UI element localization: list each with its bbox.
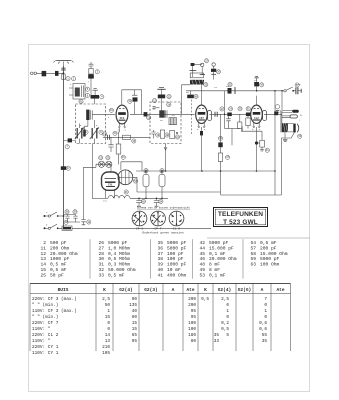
svg-text:2,5: 2,5 [102,297,110,302]
capacitor C38 [73,215,77,223]
svg-text:15: 15 [105,315,111,320]
capacitor C-padder [187,91,194,98]
svg-text:500 pF: 500 pF [50,240,67,246]
capacitor C2 chain [89,62,94,69]
wire detector out line [264,113,282,115]
ref 18 [167,103,171,107]
svg-text:0,6: 0,6 [259,327,267,332]
svg-text:50 pF: 50 pF [50,272,64,278]
svg-text:T 523 GWL: T 523 GWL [223,219,258,226]
svg-text:210: 210 [102,345,110,350]
ref 14 [113,131,117,135]
svg-text:40: 40 [132,309,138,314]
svg-text:" " (min.): " " (min.) [32,315,58,320]
tube V5 top view [118,170,137,192]
coil L3 core [159,110,167,117]
svg-text:105: 105 [102,351,110,356]
svg-text:80: 80 [191,339,197,344]
ref 48 [106,156,110,160]
svg-text:37: 37 [157,251,163,257]
resistor R31 [225,114,242,145]
svg-text:8 mF: 8 mF [209,262,220,268]
svg-text:42: 42 [199,240,205,246]
svg-text:2: 2 [43,240,46,246]
wire drop x224.5 [224,91,226,129]
wire right drop [141,90,143,115]
svg-text:15: 15 [132,327,138,332]
ref 51 [298,134,302,138]
tube V4 CY1 [102,172,120,198]
oscillator coil assembly [190,63,206,78]
svg-text:54: 54 [250,240,256,246]
node k3 [255,141,258,144]
tube labels [108,117,259,186]
resistor R-if-b [160,130,164,138]
svg-text:1000 pF: 1000 pF [167,262,187,268]
variable capacitor CV2 [90,120,99,144]
fuse F1 [62,226,72,230]
svg-text:CY1: CY1 [103,200,108,203]
wire B+ to output [281,90,283,110]
svg-text:46: 46 [199,256,205,262]
svg-text:G2(4): G2(4) [218,287,232,293]
svg-text:15: 15 [40,267,46,273]
wire speaker return [281,132,294,195]
svg-text:CY1: CY1 [108,183,113,186]
tiny pin numbers and stray marks [46,79,303,227]
switch S1b mains [44,224,59,229]
svg-text:30: 30 [98,256,104,262]
svg-text:20.000 Ohm: 20.000 Ohm [209,256,237,262]
ref 16 [121,155,125,159]
ref 6 [85,93,89,97]
svg-text:38: 38 [157,256,163,262]
svg-text:200: 200 [188,297,196,302]
wire plate top [122,89,142,91]
capacitor C37 [226,113,232,129]
node e1 [145,170,147,172]
socket labels [136,227,184,234]
tube V1 CF3 [116,105,128,128]
coil L2 core [84,110,92,130]
svg-text:1,0 MOhm: 1,0 MOhm [108,245,130,251]
capacitor C-osc3 chain [211,63,216,80]
capacitor C14 [108,137,113,152]
svg-text:CF7: CF7 [199,117,204,120]
svg-text:1000 pF: 1000 pF [50,256,70,262]
ref 31 [260,83,264,87]
ref 5 [85,87,89,91]
svg-text:14: 14 [105,333,111,338]
wire return loop bottom [221,171,282,195]
capacitor C37b [65,215,69,223]
svg-text:15.000 Ohm: 15.000 Ohm [260,251,288,257]
svg-text:BUIS: BUIS [58,287,69,293]
page frame [29,45,310,392]
svg-text:0: 0 [226,315,229,320]
svg-text:41: 41 [157,272,163,278]
svg-text:33: 33 [214,339,220,344]
wire right drop [274,91,276,171]
ref 27 [229,107,233,111]
capacitor C42 to ground [254,76,259,90]
IF transformer dashed box [150,102,181,144]
svg-text:5000 pF: 5000 pF [167,240,187,246]
capacitor C26 [158,89,165,114]
svg-text:13: 13 [105,339,111,344]
coil L4 core [169,118,177,125]
ref 46 [66,166,70,170]
svg-text:0,5 mF: 0,5 mF [50,262,67,268]
wire bottom right rule [207,237,310,239]
ref 19 [156,133,160,137]
capacitor C59 [293,87,301,94]
wire if down arrow [164,144,167,172]
tube V2 plate wire [201,91,203,105]
svg-text:33: 33 [98,272,104,278]
svg-text:27: 27 [98,245,104,251]
tube V3 plate wire [256,96,258,106]
svg-text:G2(3): G2(3) [144,287,158,293]
ref 37 [73,210,77,214]
svg-text:60: 60 [132,315,138,320]
wire grid blob V3 [241,127,243,132]
svg-text:40: 40 [157,267,163,273]
wire B+ top line [186,90,284,92]
dashed link [190,96,192,135]
coil L1 box [69,84,85,100]
switch S2 mains top [284,87,294,92]
trimmer C56 [83,130,86,137]
ref 7 [65,145,69,149]
ref 41 [160,169,164,173]
svg-text:35: 35 [262,339,268,344]
wire grid line left [92,113,115,115]
node m1 [63,228,65,230]
svg-text:110V: ": 110V: " [32,327,51,332]
capacitor C-out dark on line [274,111,278,115]
svg-text:0: 0 [264,315,267,320]
svg-text:49: 49 [199,267,205,273]
ref 32 [295,83,299,87]
svg-text:0,1 mF: 0,1 mF [209,251,226,257]
socket diagrams caption top [137,206,190,210]
svg-text:200 pF: 200 pF [260,245,277,251]
electrolytic C49 [159,171,165,198]
svg-text:95: 95 [191,315,197,320]
svg-text:Ate: Ate [276,287,284,293]
svg-text:G2(4): G2(4) [119,287,133,293]
resistor R13 [116,144,121,154]
ref 1 [66,77,70,81]
wire heater right [121,162,142,171]
svg-text:100: 100 [188,321,196,326]
svg-text:135: 135 [129,303,137,308]
ref 22 [167,94,171,98]
svg-text:57: 57 [250,245,256,251]
svg-text:400 Ohm: 400 Ohm [167,272,187,278]
terminal A.L [282,110,299,113]
svg-text:200: 200 [188,303,196,308]
ground G1 [157,88,165,90]
parts list [40,239,287,279]
svg-text:50.000 Ohm: 50.000 Ohm [108,267,136,273]
ref 17 [152,99,156,103]
ref 44 [124,190,128,194]
svg-text:14: 14 [40,262,46,268]
svg-text:CL2: CL2 [254,117,259,120]
svg-text:36: 36 [157,245,163,251]
svg-text:0,5: 0,5 [221,327,229,332]
wire heater mid [137,191,221,193]
ref 33 [265,148,269,152]
svg-text:0,3 MOhm: 0,3 MOhm [108,262,130,268]
svg-text:110V: CF 3 (max.): 110V: CF 3 (max.) [32,309,77,314]
ref 42 [141,199,145,203]
svg-text:25: 25 [40,272,46,278]
wire avc line [103,136,150,138]
svg-text:28: 28 [98,251,104,257]
choke L5 [92,196,168,199]
svg-text:0,5 mF: 0,5 mF [50,267,67,273]
capacitor C33 on x220.5 [218,114,222,153]
svg-text:100 pF: 100 pF [167,256,184,262]
ref 20 [165,133,169,137]
svg-text:0,6: 0,6 [259,321,267,326]
resistor R-avc [123,135,131,139]
node h3 [145,198,147,200]
node h4 [161,198,163,200]
svg-text:CF3: CF3 [120,117,125,120]
svg-text:20.000 Ohm: 20.000 Ohm [50,251,78,257]
tube V3 CBL2 [251,105,267,128]
svg-text:180: 180 [188,333,196,338]
ref 40 [144,169,148,173]
wire V3 cathode [256,127,258,171]
resistor R-if-a [151,130,155,139]
svg-text:35: 35 [214,333,220,338]
ref 12 [147,116,151,120]
tube V2 CF7 [196,105,212,128]
ref 10 [109,108,113,112]
ref 2 [72,77,76,81]
svg-text:95: 95 [132,339,138,344]
svg-text:8 mF: 8 mF [209,267,220,273]
wire gang down [92,144,94,199]
capacitor C16b [132,90,138,114]
heater line lamps [84,164,112,167]
svg-text:CF 3: CF 3 [136,228,143,231]
ref 50 [79,99,83,103]
node A1 [63,72,65,74]
svg-text:5000 pF: 5000 pF [108,240,128,246]
svg-text:1: 1 [107,309,110,314]
tube V1 plate wire [121,90,123,105]
bead L6 on lead [61,166,66,170]
svg-text:0,4 MOhm: 0,4 MOhm [108,251,130,257]
ref 34 [218,136,222,140]
svg-text:A: A [172,287,175,293]
ref 4 [100,95,104,99]
wire main signal line right [210,113,250,115]
svg-text:48: 48 [199,262,205,268]
data table [30,283,291,351]
ref 11 [128,99,132,103]
svg-text:59: 59 [250,256,256,262]
svg-text:Schema van de bussen onderaanz: Schema van de bussen onderaanzicht [137,206,190,210]
ref 24 [204,83,208,87]
svg-text:0,5 mF: 0,5 mF [108,272,125,278]
svg-text:Ate: Ate [186,287,194,293]
svg-text:7: 7 [264,297,267,302]
resistor R-small on line [144,112,148,116]
svg-text:10 mF: 10 mF [167,267,181,273]
resistor R-k2 [200,131,203,135]
svg-text:39: 39 [157,262,163,268]
node e2 [161,170,163,172]
svg-text:110V: ": 110V: " [32,339,51,344]
capacitor C4 series [64,138,76,142]
switch S1a [44,212,64,217]
svg-text:1: 1 [226,309,229,314]
wire plug stub [37,72,64,74]
terminal L [282,115,298,118]
col separators [90,239,243,279]
ref 49 [133,179,137,183]
variable capacitor CV1 [75,124,84,144]
svg-text:CL 2: CL 2 [173,227,180,230]
capacitor C35 series on B+ [228,87,236,94]
svg-text:Onderkant genen aanzien: Onderkant genen aanzien [142,230,184,234]
wire mains bus [59,227,211,229]
svg-text:31: 31 [98,262,104,268]
svg-text:200 Ohm: 200 Ohm [50,245,70,251]
node c4 [256,170,258,172]
node r1 [274,90,276,92]
svg-text:100: 100 [188,327,196,332]
capacitor C57 at V3 [275,105,279,115]
wire plate loop [241,131,262,140]
svg-text:35: 35 [157,240,163,246]
svg-text:0,1 mF: 0,1 mF [209,272,226,278]
svg-text:" " (min.): " " (min.) [32,303,58,308]
svg-text:53: 53 [199,272,205,278]
svg-text:K: K [204,287,207,293]
ref 25 [216,70,220,74]
resistor R41 [257,140,265,151]
svg-text:5000 pF: 5000 pF [260,256,280,262]
svg-text:100 pF: 100 pF [167,251,184,257]
ref 8 [84,130,88,134]
plug P1 [31,71,59,76]
ref 38 [87,220,91,224]
svg-text:15: 15 [132,321,138,326]
electrolytic C48 [143,171,149,198]
node d1 [224,114,226,116]
svg-text:15.000 pF: 15.000 pF [209,245,234,251]
ref 21 [175,135,179,139]
ref 9 [99,130,103,134]
svg-text:0: 0 [264,303,267,308]
wire antenna lead [63,66,65,228]
resistor R-if-c [170,130,178,138]
svg-text:100 Ohm: 100 Ohm [260,262,280,268]
svg-text:58: 58 [250,251,256,257]
transformer T1 primary [282,123,288,133]
svg-text:1: 1 [264,309,267,314]
wire cathode down [118,154,120,165]
ref 35 [226,155,230,159]
ref 47 [99,156,103,160]
node h1 [138,198,140,200]
svg-text:65: 65 [132,333,138,338]
svg-text:220V: CY 1: 220V: CY 1 [32,345,59,350]
lamp LP2 [106,161,112,167]
capacitor C-series avc [108,135,110,140]
ref 28 [238,107,242,111]
svg-text:44: 44 [199,245,205,251]
socket S-V2 [151,211,166,226]
ref 13 [103,132,107,136]
svg-text:110V: CY 1: 110V: CY 1 [32,351,59,356]
svg-text:220V: CL 2: 220V: CL 2 [32,333,59,338]
svg-text:CF 7: CF 7 [154,227,161,230]
socket S-V1 [132,211,147,226]
antenna [54,61,74,67]
svg-text:2,5: 2,5 [221,297,229,302]
svg-text:220V: CF 7: 220V: CF 7 [32,321,59,326]
node c1 [165,170,167,172]
svg-text:5000 pF: 5000 pF [167,245,187,251]
svg-text:0,5 mF: 0,5 mF [260,240,277,246]
svg-text:55: 55 [262,333,268,338]
capacitor C45 [154,198,159,206]
wire osc down left [181,85,190,115]
capacitor C16 top [91,89,100,104]
ref 26 [220,107,224,111]
svg-text:11: 11 [40,245,46,251]
node B+ [256,90,258,92]
svg-text:50: 50 [105,303,111,308]
node c2 [201,170,203,172]
svg-text:K: K [103,287,106,293]
TELEFUNKEN nameplate [214,208,268,227]
resistor R32 on x220.5 [218,153,222,195]
capacitor C-if1 [153,107,160,109]
ref 30 [228,82,232,86]
svg-text:0,2: 0,2 [221,321,229,326]
node c5 [274,170,276,172]
capacitor C1 on lead [61,68,65,79]
svg-text:95: 95 [191,309,197,314]
svg-text:A: A [261,287,264,293]
wire V2 cathode [201,127,203,171]
tuning gang dashed box [76,104,106,144]
ref 39 [64,220,68,224]
ref 43 [159,199,163,203]
svg-text:63: 63 [250,262,256,268]
wire cathode [118,128,121,144]
socket S-V3 [169,211,184,226]
capacitor C-coup series [215,112,217,117]
resistor R30 grid [246,113,251,129]
wire osc down right [201,85,203,91]
speaker LS [288,123,299,132]
output feed pair [281,110,282,132]
wire heater feed left [83,167,85,219]
svg-text:26: 26 [98,240,104,246]
wire main signal line mid [130,113,195,115]
